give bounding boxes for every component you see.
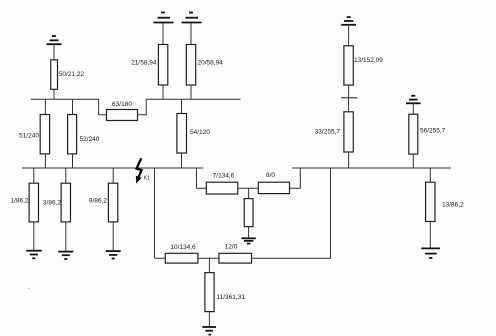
svg-text:51/240: 51/240 [19, 133, 39, 140]
wire R13b to ground [429, 222, 431, 249]
node bus2 right segment [292, 167, 451, 169]
svg-text:11/361,31: 11/361,31 [217, 294, 246, 301]
svg-text:9/86,2: 9/86,2 [89, 197, 107, 204]
ground G3 [58, 252, 73, 259]
node bus1 left segment [31, 98, 99, 100]
wire bus2 to R9 [112, 168, 114, 183]
wire G56 to R56 [412, 103, 414, 114]
svg-text:8/0: 8/0 [266, 172, 275, 179]
resistor R50 50/21,22 [51, 60, 85, 90]
ground G20 (inverted, above R20) [182, 13, 202, 23]
wire R5 to ground [248, 227, 250, 239]
resistor R63 63/180 [107, 101, 138, 121]
svg-text:33/255,7: 33/255,7 [315, 129, 341, 136]
resistor R11 11/361,31 [205, 273, 245, 312]
wire R56 to bus2 [412, 154, 414, 168]
wire bus2 down-branch to lower line [154, 168, 156, 258]
svg-text:54/120: 54/120 [190, 129, 210, 136]
wire R54 to bus2 [181, 153, 183, 168]
node bus1 right segment [146, 98, 240, 100]
wire bus1 to R51 [44, 99, 46, 114]
wire bus2 step down to R7 [197, 168, 207, 188]
svg-text:12/0: 12/0 [225, 244, 238, 251]
resistor R10 10/134,6 [165, 244, 198, 263]
wire R33 to bus2 [348, 152, 350, 168]
wire bus2 to R13b [429, 168, 431, 182]
wire junction to R5 [248, 188, 250, 198]
resistor R5 (unlabeled, vertical) [244, 199, 253, 227]
svg-text:K1: K1 [144, 176, 150, 182]
resistor R12 12/0 [219, 244, 252, 264]
wire R10 to R12 [198, 257, 219, 259]
svg-text:13/152,09: 13/152,09 [354, 57, 383, 64]
wire G21 to R21 [162, 23, 164, 45]
wire R9 to ground [112, 222, 114, 251]
wire R52 to bus2 [72, 154, 74, 168]
wire R3 to ground [65, 222, 67, 252]
wire R1 to ground [33, 222, 35, 251]
ground G56 (inverted, above R56) [406, 96, 421, 104]
node bus2 left segment [22, 167, 203, 169]
svg-text:52/240: 52/240 [80, 136, 100, 143]
wire bus2 to R1 [33, 168, 35, 183]
resistor R3 3/86,2 [43, 183, 71, 222]
wire R11 to ground [208, 312, 210, 327]
wire R21 to bus1 [162, 85, 164, 99]
wire R63 to bus1 right [138, 99, 147, 115]
svg-text:1/86,2: 1/86,2 [10, 197, 28, 204]
ground G50 (inverted, above R50) [47, 36, 62, 44]
ground G11 [202, 327, 216, 335]
wire G50 to R50 [53, 44, 55, 60]
ground G13 (inverted, above R13) [341, 17, 356, 25]
wire G13 to R13 [348, 25, 350, 46]
svg-text:56/255,7: 56/255,7 [420, 128, 446, 135]
wire junction to R11 [208, 258, 210, 272]
wire R13 to node bar [348, 85, 350, 112]
ground G5 [241, 238, 255, 243]
resistor R1 1/86,2 [10, 183, 38, 222]
wire R50 to bus1 [53, 89, 55, 99]
fault K1 lightning bolt [136, 158, 142, 183]
resistor R33 33/255,7 [315, 112, 354, 152]
svg-text:21/58,94: 21/58,94 [131, 60, 157, 67]
svg-text:50/21,22: 50/21,22 [59, 71, 85, 78]
resistor R20 20/58,94 [186, 45, 223, 86]
resistor R52 52/240 [68, 115, 100, 154]
wire lower branch to R10 [155, 257, 166, 259]
node bar between R13 and R33 [341, 97, 358, 99]
resistor R51 51/240 [19, 115, 49, 154]
resistor R54 54/120 [177, 114, 210, 154]
wire bus1 to R54 [181, 99, 183, 113]
wire bus1 to R52 [72, 99, 74, 114]
resistor R21 21/58,94 [131, 45, 168, 86]
scan speckle dot [28, 288, 30, 290]
svg-text:3/86,2: 3/86,2 [43, 199, 61, 206]
wire R20 to bus1 [190, 85, 192, 99]
resistor R8 8/0 [258, 172, 289, 194]
wire R12 to bus2 right riser [252, 168, 331, 258]
svg-text:13/86,2: 13/86,2 [442, 202, 464, 209]
ground G1 [26, 251, 42, 259]
wire bus2 to R3 [65, 168, 67, 183]
svg-text:20/58,94: 20/58,94 [198, 60, 224, 67]
resistor R13 13/152,09 [344, 46, 383, 85]
resistor R13b 13/86,2 [426, 182, 464, 221]
wire R8 step up to bus2 [290, 168, 301, 188]
svg-text:63/180: 63/180 [112, 101, 132, 108]
resistor R7 7/134,6 [206, 173, 238, 195]
ground G21 (inverted, above R21) [154, 13, 174, 23]
svg-text:10/134,6: 10/134,6 [170, 244, 196, 251]
wire bus1 step down to R63 [99, 99, 107, 115]
ground G9 [106, 251, 121, 258]
wire R51 to bus2 [44, 154, 46, 168]
wire G20 to R20 [190, 23, 192, 45]
wire R7 to R8 [238, 187, 258, 189]
resistor R9 9/86,2 [89, 183, 118, 222]
resistor R56 56/255,7 [409, 114, 446, 154]
svg-text:7/134,6: 7/134,6 [213, 173, 235, 180]
ground G13b [421, 248, 440, 258]
